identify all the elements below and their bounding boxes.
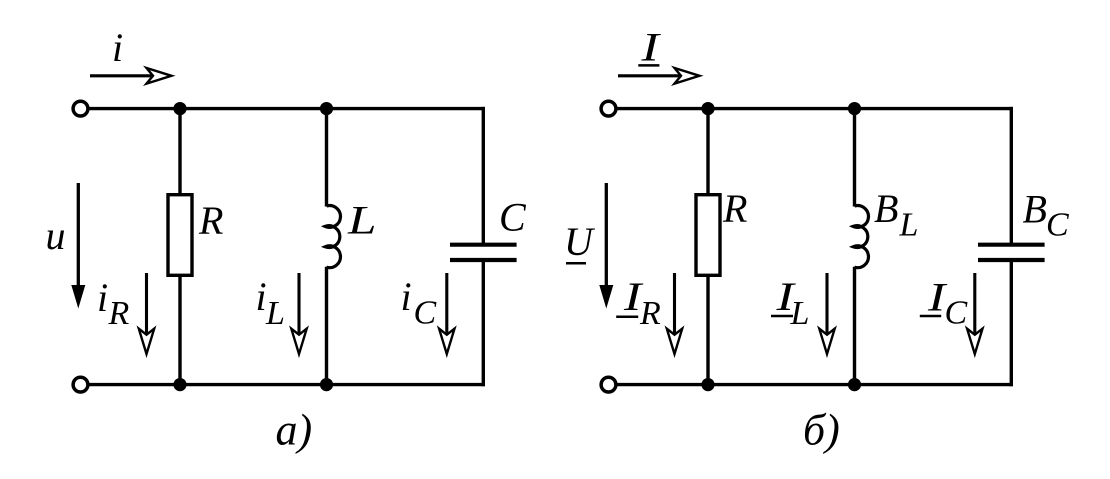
label B_C (circuit b) <box>1023 186 1070 243</box>
svg-text:u: u <box>46 213 66 258</box>
svg-text:R: R <box>198 198 223 243</box>
resistor R (circuit b) <box>696 195 720 276</box>
svg-text:I: I <box>640 26 661 70</box>
terminal: bottom input (circuit a) <box>73 377 88 392</box>
svg-text:R: R <box>108 295 130 332</box>
label U (voltage, circuit b) <box>564 219 596 264</box>
inductor coil (circuit b) <box>853 206 868 268</box>
wire: bottom bus (circuit b) <box>616 383 1013 386</box>
arrow: L branch current (circuit a) <box>291 273 306 354</box>
wire: L branch top lead (circuit a) <box>325 109 328 207</box>
svg-text:L: L <box>347 198 377 242</box>
svg-text:i: i <box>112 25 123 70</box>
label I_L (circuit b) <box>771 276 809 332</box>
svg-text:C: C <box>945 295 968 332</box>
junction: R bottom (circuit a) <box>173 378 186 391</box>
arrow: voltage (circuit b) <box>599 183 613 309</box>
svg-text:i: i <box>256 274 267 319</box>
inductor coil (circuit a) <box>325 206 340 268</box>
arrow: total current (circuit a) <box>90 68 172 84</box>
junction: L top (circuit b) <box>848 102 861 115</box>
arrow: C branch current (circuit a) <box>439 273 454 354</box>
capacitor top plate (circuit b) <box>978 243 1045 247</box>
junction: R bottom (circuit b) <box>701 378 714 391</box>
label I_C (circuit b) <box>920 276 968 331</box>
svg-text:L: L <box>265 295 285 332</box>
svg-text:L: L <box>899 207 919 244</box>
label i_L (circuit a) <box>256 274 285 332</box>
junction: L bottom (circuit b) <box>848 378 861 391</box>
resistor R (circuit a) <box>168 195 192 276</box>
label B_L (circuit b) <box>874 186 918 244</box>
terminal: top input (circuit a) <box>73 101 88 116</box>
wire: R branch top lead (circuit b) <box>706 109 709 196</box>
wire: L branch bottom lead (circuit b) <box>853 267 856 385</box>
svg-text:R: R <box>722 186 747 231</box>
label i_R (circuit a) <box>97 275 130 332</box>
svg-text:L: L <box>790 295 810 332</box>
arrow: R branch current (circuit a) <box>139 273 154 354</box>
capacitor bottom plate (circuit b) <box>978 258 1045 262</box>
svg-text:R: R <box>639 295 661 332</box>
junction: R top (circuit a) <box>173 102 186 115</box>
junction: L bottom (circuit a) <box>320 378 333 391</box>
wire: top bus (circuit b) <box>616 107 1013 110</box>
svg-text:U: U <box>564 219 596 264</box>
wire: C branch top lead (from top bus corner) (circuit a) <box>482 107 485 245</box>
terminal: bottom input (circuit b) <box>601 377 616 392</box>
wire: R branch bottom lead (circuit a) <box>178 274 181 385</box>
svg-text:i: i <box>401 274 412 319</box>
label I_R (circuit b) <box>616 276 661 332</box>
svg-text:B: B <box>874 186 898 231</box>
wire: L branch top lead (circuit b) <box>853 109 856 207</box>
junction: L top (circuit a) <box>320 102 333 115</box>
svg-text:i: i <box>97 275 108 320</box>
arrow: R branch current (circuit b) <box>667 273 682 354</box>
arrow: C branch current (circuit b) <box>967 273 982 354</box>
label I (total current, circuit b) <box>638 26 661 70</box>
svg-text:C: C <box>499 195 527 240</box>
capacitor bottom plate (circuit a) <box>450 258 517 262</box>
svg-text:B: B <box>1023 186 1047 231</box>
arrow: voltage (circuit a) <box>71 183 85 309</box>
junction: R top (circuit b) <box>701 102 714 115</box>
svg-text:C: C <box>1046 207 1069 244</box>
svg-text:C: C <box>414 295 437 332</box>
wire: C branch bottom lead (to bottom bus corner) (circuit b) <box>1010 260 1013 386</box>
capacitor top plate (circuit a) <box>450 243 517 247</box>
wire: L branch bottom lead (circuit a) <box>325 267 328 385</box>
wire: R branch top lead (circuit a) <box>178 109 181 196</box>
wire: R branch bottom lead (circuit b) <box>706 274 709 385</box>
wire: C branch top lead (from top bus corner) (circuit b) <box>1010 107 1013 245</box>
arrow: L branch current (circuit b) <box>819 273 834 354</box>
wire: top bus (circuit a) <box>88 107 485 110</box>
terminal: top input (circuit b) <box>601 101 616 116</box>
label i_C (circuit a) <box>401 274 437 332</box>
wire: bottom bus (circuit a) <box>88 383 485 386</box>
arrow: total current (circuit b) <box>618 68 700 84</box>
wire: C branch bottom lead (to bottom bus corner) (circuit a) <box>482 260 485 386</box>
svg-text:б): б) <box>803 406 840 455</box>
svg-text:а): а) <box>276 406 313 455</box>
